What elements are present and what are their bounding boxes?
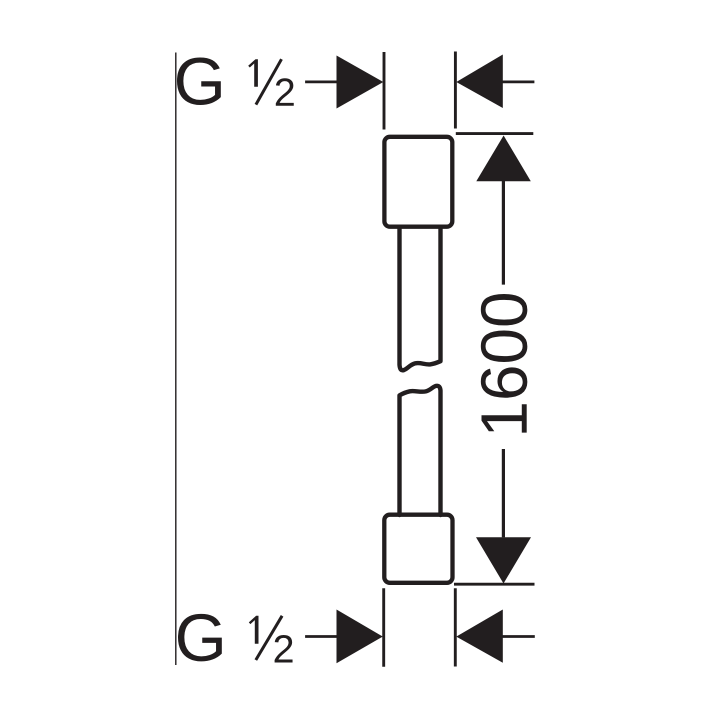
label G bottom: letter G [178, 614, 222, 662]
length dimension: bottom extension line [454, 583, 535, 586]
frame edge line [175, 53, 177, 666]
top width dimension: right arrow line [502, 81, 534, 84]
bottom width dimension: left arrowhead [337, 610, 383, 664]
hose tube upper segment (walls and break wave) [400, 227, 441, 370]
bottom width dimension: right arrow line [502, 635, 535, 638]
length dimension: down arrowhead [476, 537, 531, 583]
top width dimension: right extension line [454, 52, 457, 129]
length dimension: value 1600 [481, 294, 528, 433]
top width dimension: left arrowhead [337, 56, 384, 109]
label G bottom: denominator 2 [275, 635, 293, 663]
label G bottom: numerator 1 [249, 616, 259, 644]
top width dimension: left extension line [383, 52, 386, 130]
length dimension: upper line segment [502, 180, 505, 285]
bottom width dimension: left extension line [382, 588, 385, 666]
label G top: numerator 1 [248, 59, 258, 86]
bottom width dimension: left arrow line [305, 635, 338, 638]
top width dimension: right arrowhead [456, 55, 503, 109]
label G top: fraction slash [256, 59, 282, 104]
label G top: letter G [177, 58, 221, 106]
length dimension: up arrowhead [476, 136, 531, 182]
length dimension: top extension line [456, 132, 534, 135]
length dimension: lower line segment [502, 449, 505, 537]
top width dimension: left arrow line [305, 81, 338, 84]
hose tube lower segment (walls and break wave) [400, 386, 441, 515]
hose connector bottom [384, 515, 452, 583]
hose connector top [384, 137, 452, 227]
label G bottom: fraction slash [256, 616, 282, 660]
label G top: denominator 2 [276, 78, 294, 106]
bottom width dimension: right arrowhead [456, 610, 503, 663]
bottom width dimension: right extension line [454, 588, 457, 666]
